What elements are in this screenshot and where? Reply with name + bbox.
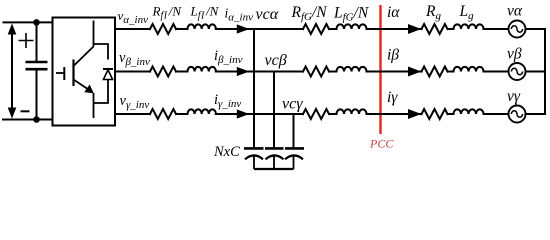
- dc source arrowhead down: [8, 108, 17, 119]
- inductor row3 second: [337, 109, 367, 114]
- cap1 curved plate: [245, 155, 263, 159]
- svg-text:PCC: PCC: [369, 137, 394, 151]
- wire: [448, 28, 454, 30]
- ac source v_gamma: [509, 106, 526, 123]
- resistor row3 first: [150, 109, 176, 119]
- svg-text:vcγ: vcγ: [282, 96, 303, 113]
- resistor RfG/N row1: [303, 24, 329, 34]
- cap3 bottom lead: [293, 155, 295, 169]
- diode cathode bar: [103, 68, 113, 70]
- wire source to bus: [526, 113, 546, 115]
- resistor RfI/N row1: [150, 24, 176, 34]
- node vc beta downline: [273, 72, 275, 148]
- inductor LfI/N row1: [188, 24, 216, 29]
- svg-text:vα: vα: [507, 3, 523, 20]
- wire across PCC: [367, 113, 422, 115]
- current arrow i_gamma: [408, 109, 421, 119]
- inductor row3 first: [188, 109, 216, 114]
- wire: [329, 28, 337, 30]
- emitter diagonal: [74, 80, 89, 90]
- gate bar: [63, 67, 65, 80]
- junction dot bottom: [33, 116, 40, 123]
- node vc gamma downline: [293, 114, 295, 147]
- plus sign: [19, 33, 34, 48]
- wire inverter to R: [115, 71, 150, 73]
- cap3 flat plate: [285, 147, 304, 150]
- diode bottom link: [94, 80, 109, 104]
- svg-text:vcα: vcα: [256, 6, 279, 23]
- cap2 curved plate: [266, 155, 284, 159]
- wire across PCC: [367, 28, 422, 30]
- resistor row2 second: [303, 67, 329, 77]
- resistor row3 second: [303, 109, 329, 119]
- cap1 flat plate: [244, 147, 264, 150]
- resistor Rg row2: [422, 67, 448, 77]
- wire across PCC: [367, 71, 422, 73]
- current arrow i_beta_inv: [237, 67, 250, 76]
- svg-text:vγ: vγ: [507, 88, 521, 105]
- cap1 bottom lead: [253, 155, 255, 169]
- phase beta row: [115, 67, 545, 77]
- wire node to Rfg: [254, 28, 303, 30]
- svg-text:NxC: NxC: [213, 144, 240, 160]
- wire to source: [484, 113, 509, 115]
- inductor Lg row1: [454, 24, 484, 29]
- collector diagonal: [74, 47, 94, 67]
- base bar: [72, 60, 74, 87]
- current arrow i_gamma_inv: [237, 109, 250, 118]
- wire: [216, 113, 294, 115]
- capacitor Cdc leads: [36, 22, 38, 119]
- collector lead: [93, 21, 95, 47]
- wire: [176, 71, 188, 73]
- wire to source: [484, 28, 509, 30]
- inductor LfG/N row1: [337, 24, 367, 29]
- svg-text:vβ: vβ: [507, 46, 522, 63]
- dc source arrow shaft: [11, 32, 13, 110]
- diode D1: [94, 44, 114, 103]
- svg-text:iα: iα: [387, 4, 400, 21]
- svg-text:iβ: iβ: [387, 47, 399, 64]
- cap2 flat plate: [265, 147, 284, 150]
- gate lead: [56, 72, 64, 74]
- inductor row2 first: [188, 67, 216, 72]
- diode top link: [94, 44, 109, 60]
- wire: [216, 28, 254, 30]
- svg-text:vcβ: vcβ: [265, 52, 287, 69]
- wire node to second R: [274, 71, 303, 73]
- wire: [329, 113, 337, 115]
- resistor Rg row3: [422, 109, 448, 119]
- PCC red line: [379, 5, 381, 134]
- dc source arrowhead up: [8, 23, 17, 34]
- emitter lead: [93, 93, 95, 118]
- minus sign: [21, 110, 30, 112]
- capacitor Cdc plates: [26, 62, 48, 69]
- wire: [176, 113, 188, 115]
- IGBT emitter arrowhead: [84, 85, 94, 94]
- ac source v_beta: [509, 63, 526, 80]
- wire: [176, 28, 188, 30]
- wire node to second R: [294, 113, 304, 115]
- wire source to bus: [526, 28, 546, 30]
- node vc alpha downline: [253, 29, 255, 147]
- wire source to bus: [526, 71, 546, 73]
- inductor Lg row2: [454, 67, 484, 72]
- wire inverter to R: [115, 28, 150, 30]
- cap2 bottom lead: [273, 155, 275, 169]
- wire to source: [484, 71, 509, 73]
- wire dc bottom: [3, 119, 53, 121]
- wire dc top: [4, 21, 53, 23]
- phase alpha row: [115, 24, 545, 34]
- wire: [216, 71, 274, 73]
- star point bottom wire: [254, 168, 294, 170]
- capacitor bank NxC: [244, 148, 304, 169]
- right bus wire: [544, 29, 546, 114]
- wire inverter to R: [115, 113, 150, 115]
- inductor Lg row3: [454, 109, 484, 114]
- wire: [448, 71, 454, 73]
- diode triangle: [103, 70, 112, 80]
- current arrow i_beta: [408, 67, 421, 77]
- current arrow i_alpha: [408, 24, 421, 34]
- phase gamma row: [115, 109, 545, 119]
- wire: [448, 113, 454, 115]
- inductor row2 second: [337, 67, 367, 72]
- current arrow i_alpha_inv: [237, 24, 250, 33]
- wire: [329, 71, 337, 73]
- IGBT Q1: [56, 21, 94, 119]
- cap3 curved plate: [285, 155, 303, 159]
- junction dot top: [33, 19, 40, 26]
- ac source v_alpha: [509, 21, 526, 38]
- resistor row2 first: [150, 67, 176, 77]
- resistor Rg row1: [422, 24, 448, 34]
- svg-text:iγ: iγ: [387, 89, 398, 106]
- inverter box: [53, 18, 116, 126]
